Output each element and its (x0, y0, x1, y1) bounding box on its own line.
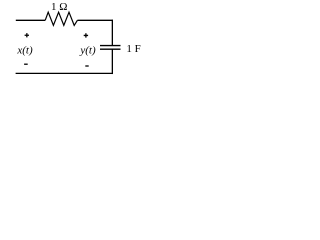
wire right vertical lower (capacitor to bottom) (111, 49, 113, 74)
svg-text:y(t): y(t) (79, 44, 96, 56)
wire right vertical upper (to capacitor) (111, 20, 113, 46)
plus sign of y(t) (84, 33, 88, 37)
capacitor C1 top plate (100, 45, 121, 47)
wire bottom segment (16, 72, 113, 74)
minus sign of y(t) (85, 65, 88, 67)
resistor R (1 ohm) zigzag (45, 12, 77, 25)
plus sign of x(t) (25, 33, 29, 37)
wire top-right segment (77, 19, 113, 21)
wire top-left segment (16, 19, 45, 21)
svg-text:x(t): x(t) (16, 45, 33, 57)
minus sign of x(t) (24, 63, 28, 65)
capacitor C1 bottom plate (100, 48, 121, 50)
svg-text:1 Ω: 1 Ω (51, 1, 67, 13)
svg-text:1 F: 1 F (126, 43, 140, 55)
